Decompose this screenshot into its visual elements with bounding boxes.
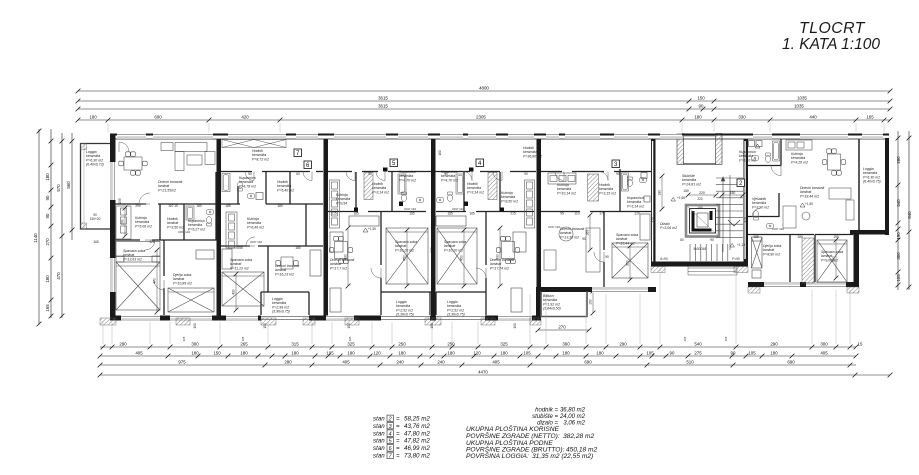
svg-text:150: 150 xyxy=(263,323,267,329)
svg-text:105: 105 xyxy=(523,350,531,355)
left dim chain 560 xyxy=(70,133,75,240)
stair recess back wall xyxy=(683,163,716,165)
svg-text:2305: 2305 xyxy=(476,114,486,119)
wardrobe left xyxy=(116,242,160,257)
svg-text:90: 90 xyxy=(710,238,714,242)
interior dim lines xyxy=(156,250,158,312)
svg-text:180: 180 xyxy=(191,350,199,355)
svg-text:185: 185 xyxy=(469,212,475,216)
couch 16.23 xyxy=(310,250,321,276)
svg-text:300: 300 xyxy=(832,256,836,262)
closet hatched unit a xyxy=(364,173,373,200)
right loggia outline xyxy=(858,139,860,230)
svg-text:360: 360 xyxy=(562,341,570,346)
wardrobe a xyxy=(349,216,379,226)
apartment number box 2 xyxy=(737,179,745,187)
svg-text:90: 90 xyxy=(699,103,704,108)
svg-text:380: 380 xyxy=(536,247,540,253)
svg-text:165: 165 xyxy=(182,336,186,341)
stair block bottom wall xyxy=(651,262,748,267)
apartment number box 5 xyxy=(390,159,398,167)
svg-text:OKP 140: OKP 140 xyxy=(404,207,416,211)
svg-text:105: 105 xyxy=(896,274,901,282)
left dim chain 570-470 xyxy=(60,133,65,318)
svg-text:280: 280 xyxy=(284,359,292,364)
hatched pier x=303 xyxy=(303,318,315,325)
svg-text:185: 185 xyxy=(409,212,415,216)
top wall window 614 xyxy=(614,134,648,140)
top dim chain 3615-90-1035 xyxy=(76,107,893,112)
svg-text:160: 160 xyxy=(438,150,442,156)
svg-text:105: 105 xyxy=(748,350,756,355)
svg-text:stubište =: stubište = xyxy=(532,414,558,420)
bottom exterior wall mid section xyxy=(536,287,656,292)
svg-text:43,76 m2: 43,76 m2 xyxy=(404,423,430,430)
top wall window 660 xyxy=(660,134,682,140)
staircase treads xyxy=(716,175,743,252)
svg-text:Vješalnik keramika P=3,90 m2: Vješalnik keramika P=3,90 m2 xyxy=(752,197,769,209)
svg-text:105: 105 xyxy=(326,350,334,355)
svg-text:120: 120 xyxy=(373,350,381,355)
svg-text:290: 290 xyxy=(770,341,778,346)
apartment number box 4 xyxy=(476,159,484,167)
night tables xyxy=(116,256,124,262)
svg-text:24,00 m2: 24,00 m2 xyxy=(559,414,586,420)
wardrobe djecja 8.90 xyxy=(802,238,814,283)
top wall window 440 xyxy=(440,134,463,140)
top wall window 334 xyxy=(334,134,386,140)
svg-text:120: 120 xyxy=(634,212,640,216)
bottom wall window 592 xyxy=(592,287,648,293)
svg-text:185: 185 xyxy=(353,212,359,216)
top wall window 862 xyxy=(862,134,883,140)
right loggia outer wall xyxy=(885,138,889,235)
svg-text:47,82 m2: 47,82 m2 xyxy=(404,438,430,445)
svg-text:180: 180 xyxy=(596,350,604,355)
svg-text:430: 430 xyxy=(232,289,236,295)
svg-text:Kupaonica keramika P=5,27 m2: Kupaonica keramika P=5,27 m2 xyxy=(188,219,206,231)
wardrobe 10.44 xyxy=(640,214,650,240)
bed djecja 8.90 xyxy=(752,237,763,268)
bathroom a fixtures xyxy=(401,192,406,201)
apartment number box 3 xyxy=(612,160,620,168)
table dnevni b xyxy=(496,236,519,263)
svg-text:90: 90 xyxy=(616,172,620,176)
bathroom 4.78 fixtures xyxy=(237,182,242,191)
svg-text:300: 300 xyxy=(896,252,901,260)
svg-text:180: 180 xyxy=(277,204,283,208)
svg-text:15: 15 xyxy=(858,341,863,346)
svg-text:110: 110 xyxy=(574,212,579,216)
svg-text:60: 60 xyxy=(296,172,300,176)
svg-text:405: 405 xyxy=(492,359,500,364)
top wall window 153 xyxy=(153,134,213,140)
svg-text:+1,19: +1,19 xyxy=(737,243,745,247)
svg-text:540: 540 xyxy=(896,199,901,207)
top dim chain total 4800 xyxy=(76,89,893,94)
svg-text:190: 190 xyxy=(896,232,901,240)
svg-text:+1,50: +1,50 xyxy=(805,202,813,206)
svg-text:=: = xyxy=(396,423,400,430)
left loggia outline xyxy=(81,144,111,230)
exterior landing below stair block xyxy=(688,267,737,276)
closet hatched unit b xyxy=(488,173,497,200)
dining table left unit xyxy=(119,152,147,175)
svg-text:165: 165 xyxy=(724,336,728,341)
svg-text:stan: stan xyxy=(373,445,385,452)
table dnevni 17.7a xyxy=(329,236,352,263)
svg-text:220: 220 xyxy=(699,191,705,195)
bottom dim chain 1 xyxy=(100,345,858,350)
stair block left wall xyxy=(651,139,656,266)
stair core dim lines xyxy=(661,176,663,209)
svg-text:382,28 m2: 382,28 m2 xyxy=(563,433,594,440)
left dim chain 1140 xyxy=(37,129,42,327)
stair block right wall xyxy=(744,139,749,266)
kitchen a counter xyxy=(330,180,340,228)
right dim chain outer xyxy=(907,131,912,290)
svg-text:220: 220 xyxy=(697,197,703,201)
svg-text:180: 180 xyxy=(447,350,455,355)
svg-text:stan: stan xyxy=(373,423,385,430)
bottom wall window 806 xyxy=(806,282,846,288)
svg-text:690: 690 xyxy=(584,359,592,364)
top wall window 753 xyxy=(753,134,772,140)
door arcs xyxy=(245,172,254,181)
svg-text:150: 150 xyxy=(697,95,705,100)
svg-text:470: 470 xyxy=(153,278,157,284)
svg-text:150: 150 xyxy=(589,299,593,305)
svg-text:165: 165 xyxy=(348,336,352,341)
wall under right loggia xyxy=(850,230,889,235)
kitchen unit2 xyxy=(226,212,237,248)
bed spavaca 10.20a xyxy=(386,228,428,284)
hatched pier x=425 xyxy=(425,318,441,325)
svg-text:OKP 140: OKP 140 xyxy=(548,225,560,229)
svg-text:1035: 1035 xyxy=(797,95,807,100)
svg-text:95: 95 xyxy=(560,212,564,216)
svg-text:90: 90 xyxy=(605,255,609,259)
bed djecja 10.89 xyxy=(168,288,214,312)
svg-text:stan: stan xyxy=(373,453,385,460)
svg-text:=: = xyxy=(396,453,400,460)
svg-text:hodnik =: hodnik = xyxy=(535,408,558,414)
balkon outline xyxy=(541,292,587,317)
witness lines bottom xyxy=(103,268,850,344)
apartment number box 6 xyxy=(304,161,312,169)
common areas list xyxy=(532,408,586,427)
svg-text:73,80 m2: 73,80 m2 xyxy=(404,453,430,460)
svg-text:POVRŠINA LOGGIA:: POVRŠINA LOGGIA: xyxy=(466,451,529,460)
closet hatched unit5 xyxy=(588,174,599,201)
svg-text:180: 180 xyxy=(196,204,202,208)
svg-text:215: 215 xyxy=(331,212,337,216)
svg-text:105: 105 xyxy=(646,350,654,355)
svg-text:380: 380 xyxy=(430,247,434,253)
balkon dim 270 xyxy=(536,328,592,333)
svg-text:OKP 140: OKP 140 xyxy=(452,207,464,211)
svg-text:440: 440 xyxy=(809,114,817,119)
svg-text:170: 170 xyxy=(651,217,655,223)
apartment area list xyxy=(373,415,430,459)
bottom wall window 764 xyxy=(764,282,800,288)
desk djecja xyxy=(196,250,214,259)
left wall window y=258 xyxy=(110,258,116,292)
svg-text:4800: 4800 xyxy=(479,85,489,90)
bed spavaca 11.13 xyxy=(222,272,264,306)
bottom dim chain 4 xyxy=(98,373,893,378)
top dim chain 3615-150-1035 xyxy=(76,99,893,104)
hatched pier x=345 xyxy=(345,318,359,325)
svg-text:Kupaonica keramika P=3,14 m2: Kupaonica keramika P=3,14 m2 xyxy=(627,196,645,208)
top wall window 296 xyxy=(296,134,318,140)
top wall window 468 xyxy=(468,134,496,140)
svg-text:180: 180 xyxy=(295,246,301,250)
svg-text:120: 120 xyxy=(149,240,155,244)
svg-text:180: 180 xyxy=(694,114,702,119)
svg-text:=: = xyxy=(396,430,400,437)
hatched pier x=847 xyxy=(847,287,859,293)
top wall window 228 xyxy=(228,134,286,140)
apartment separation wall sep3 xyxy=(431,139,436,316)
svg-text:=: = xyxy=(396,445,400,452)
svg-text:300: 300 xyxy=(191,341,199,346)
apartment separation wall sep1 xyxy=(217,139,222,316)
top wall window 800 xyxy=(800,134,848,140)
bed spavaca 10.44 xyxy=(612,243,648,278)
svg-text:180: 180 xyxy=(797,235,803,239)
svg-text:180: 180 xyxy=(240,350,248,355)
top wall window 398 xyxy=(398,134,428,140)
svg-text:840: 840 xyxy=(907,211,912,219)
svg-text:=: = xyxy=(396,416,400,423)
bed spavaca 13.63 xyxy=(116,262,160,310)
svg-text:90: 90 xyxy=(524,172,528,176)
svg-text:47,80 m2: 47,80 m2 xyxy=(404,430,430,437)
stair recess left wall xyxy=(677,134,684,165)
hatched pier x=734 xyxy=(734,267,748,273)
svg-text:270: 270 xyxy=(558,324,566,329)
apartment separation wall sep4 xyxy=(537,139,542,287)
apartment number box 7 xyxy=(294,149,302,157)
svg-text:150: 150 xyxy=(730,191,736,195)
right unit couch xyxy=(783,188,854,228)
svg-text:31,35 m2 (22,55 m2): 31,35 m2 (22,55 m2) xyxy=(532,453,593,460)
svg-text:3615: 3615 xyxy=(378,103,388,108)
svg-text:295: 295 xyxy=(118,198,122,204)
svg-text:330: 330 xyxy=(738,114,746,119)
kitchen left xyxy=(116,206,131,239)
kitchen 10.14 xyxy=(548,173,576,184)
svg-text:3: 3 xyxy=(389,424,392,430)
hall closet band unit2 xyxy=(222,140,286,148)
svg-text:350: 350 xyxy=(626,260,630,266)
bottom wall window 170 xyxy=(170,316,212,322)
top dim chain segments xyxy=(76,118,893,123)
bathroom 5.40 fixtures xyxy=(765,153,770,162)
svg-text:130+20: 130+20 xyxy=(90,217,101,221)
left dim chain segments xyxy=(49,129,54,318)
svg-text:430: 430 xyxy=(344,254,348,260)
svg-text:405: 405 xyxy=(820,350,828,355)
level mark stair xyxy=(730,243,734,247)
left wall window y=162 xyxy=(110,162,116,200)
svg-text:150: 150 xyxy=(213,350,221,355)
svg-text:90: 90 xyxy=(731,350,736,355)
svg-text:165: 165 xyxy=(241,336,245,341)
door thresholds xyxy=(354,168,504,212)
svg-text:275: 275 xyxy=(694,350,702,355)
svg-text:90: 90 xyxy=(45,213,50,218)
svg-text:215: 215 xyxy=(510,212,516,216)
svg-text:90: 90 xyxy=(368,172,372,176)
svg-text:180: 180 xyxy=(45,173,50,181)
apartment separation wall sep2 xyxy=(324,139,329,316)
svg-text:46,99 m2: 46,99 m2 xyxy=(404,445,430,452)
left exterior wall xyxy=(110,134,116,321)
svg-text:=: = xyxy=(396,438,400,445)
svg-text:290: 290 xyxy=(619,341,627,346)
hatched pier x=100 xyxy=(100,318,116,325)
svg-text:560: 560 xyxy=(66,181,71,189)
svg-text:325: 325 xyxy=(500,341,508,346)
svg-text:1035: 1035 xyxy=(794,103,804,108)
svg-text:stan: stan xyxy=(373,430,385,437)
svg-text:120: 120 xyxy=(473,350,481,355)
svg-text:6: 6 xyxy=(389,446,392,452)
svg-text:OKP 140: OKP 140 xyxy=(772,227,784,231)
svg-text:290: 290 xyxy=(121,219,125,225)
hatched pier x=651 xyxy=(651,267,665,273)
table dnevni 16.23 xyxy=(276,257,298,269)
svg-text:180: 180 xyxy=(562,350,570,355)
svg-text:180: 180 xyxy=(347,350,355,355)
right dim chain inner xyxy=(896,131,901,290)
svg-text:470: 470 xyxy=(56,272,61,280)
witness lines top xyxy=(108,123,884,132)
svg-text:185: 185 xyxy=(753,235,759,239)
svg-text:165: 165 xyxy=(683,336,687,341)
svg-text:975: 975 xyxy=(178,359,186,364)
svg-text:36,80 m2: 36,80 m2 xyxy=(560,408,586,414)
svg-text:3,06 m2: 3,06 m2 xyxy=(563,421,585,427)
bottom wall window 498 xyxy=(498,316,532,322)
svg-text:OKP 140: OKP 140 xyxy=(178,230,190,234)
loggia parapet 381 xyxy=(381,316,430,321)
hatched pier x=176 xyxy=(176,318,190,325)
svg-text:360: 360 xyxy=(323,247,327,253)
couch dnevni b xyxy=(511,288,522,312)
svg-text:185: 185 xyxy=(447,212,453,216)
bottom wall window 226 xyxy=(226,316,258,322)
svg-text:180: 180 xyxy=(89,114,97,119)
svg-text:P=90: P=90 xyxy=(732,257,740,261)
step wall xyxy=(536,287,541,321)
hatched pier x=481 xyxy=(481,318,495,325)
loggia parapet 436 xyxy=(436,316,485,321)
svg-text:240: 240 xyxy=(216,219,220,225)
right exterior wall lower xyxy=(854,230,860,287)
hatched pier x=748 xyxy=(748,287,760,293)
wc vjesalnik xyxy=(753,211,758,220)
svg-text:570: 570 xyxy=(56,184,61,192)
svg-text:365: 365 xyxy=(586,230,590,236)
bathroom b fixtures xyxy=(447,192,452,201)
top exterior wall line xyxy=(110,134,889,136)
svg-text:90: 90 xyxy=(444,172,448,176)
svg-text:165: 165 xyxy=(45,304,50,312)
loggia parapet 261 xyxy=(261,316,309,321)
sofa left unit xyxy=(161,143,215,171)
svg-text:4470: 4470 xyxy=(478,369,488,374)
svg-text:250: 250 xyxy=(398,341,406,346)
stair direction chevron xyxy=(728,220,740,226)
right kitchen counter xyxy=(786,140,812,150)
svg-text:180: 180 xyxy=(45,275,50,283)
svg-text:150: 150 xyxy=(683,189,689,193)
svg-text:195: 195 xyxy=(833,235,839,239)
svg-text:TLOCRT: TLOCRT xyxy=(799,20,866,37)
bottom dim chain 2 xyxy=(98,354,859,359)
bottom exterior wall right section xyxy=(748,282,859,287)
svg-text:90: 90 xyxy=(670,350,675,355)
svg-text:690: 690 xyxy=(787,359,795,364)
svg-text:165: 165 xyxy=(93,240,99,244)
svg-text:290: 290 xyxy=(135,204,141,208)
svg-text:150: 150 xyxy=(430,323,434,329)
svg-text:150: 150 xyxy=(347,323,351,329)
svg-text:450: 450 xyxy=(403,255,407,261)
svg-text:90: 90 xyxy=(582,237,586,241)
svg-text:Kupaonica keramika P=4,70 m2: Kupaonica keramika P=4,70 m2 xyxy=(399,170,417,182)
svg-text:OKP 140: OKP 140 xyxy=(250,240,262,244)
lower stair flight xyxy=(690,244,728,261)
elevator shaft xyxy=(686,205,719,237)
svg-text:170: 170 xyxy=(743,217,747,223)
bottom dim chain 3 xyxy=(98,363,856,368)
svg-text:315: 315 xyxy=(291,341,299,346)
top wall window 565 xyxy=(565,134,600,140)
svg-text:185: 185 xyxy=(225,204,231,208)
svg-text:58,25 m2: 58,25 m2 xyxy=(404,416,430,423)
svg-text:90: 90 xyxy=(45,195,50,200)
svg-text:180: 180 xyxy=(500,350,508,355)
svg-text:510: 510 xyxy=(686,359,694,364)
bathroom small fixtures xyxy=(627,177,632,186)
svg-text:150: 150 xyxy=(513,323,517,329)
wardrobe 11.13 xyxy=(222,249,232,269)
svg-text:180: 180 xyxy=(658,190,662,196)
svg-text:180: 180 xyxy=(291,350,299,355)
bottom wall window 121 xyxy=(121,316,160,322)
svg-text:4: 4 xyxy=(389,431,392,437)
bottom wall window 326 xyxy=(326,316,354,322)
svg-text:280: 280 xyxy=(896,156,901,164)
top wall window 117 xyxy=(117,134,146,140)
kitchen b counter xyxy=(525,180,535,228)
couch dnevni 13.30 xyxy=(544,227,600,272)
svg-text:250: 250 xyxy=(447,341,455,346)
svg-text:405: 405 xyxy=(342,359,350,364)
level mark corridor xyxy=(363,228,368,232)
svg-text:450: 450 xyxy=(460,255,464,261)
hatched pier x=530 xyxy=(530,318,541,325)
svg-text:540: 540 xyxy=(694,341,702,346)
svg-text:180: 180 xyxy=(770,350,778,355)
svg-text:255: 255 xyxy=(237,246,243,250)
svg-text:175: 175 xyxy=(599,212,605,216)
svg-text:6=90: 6=90 xyxy=(660,257,667,261)
